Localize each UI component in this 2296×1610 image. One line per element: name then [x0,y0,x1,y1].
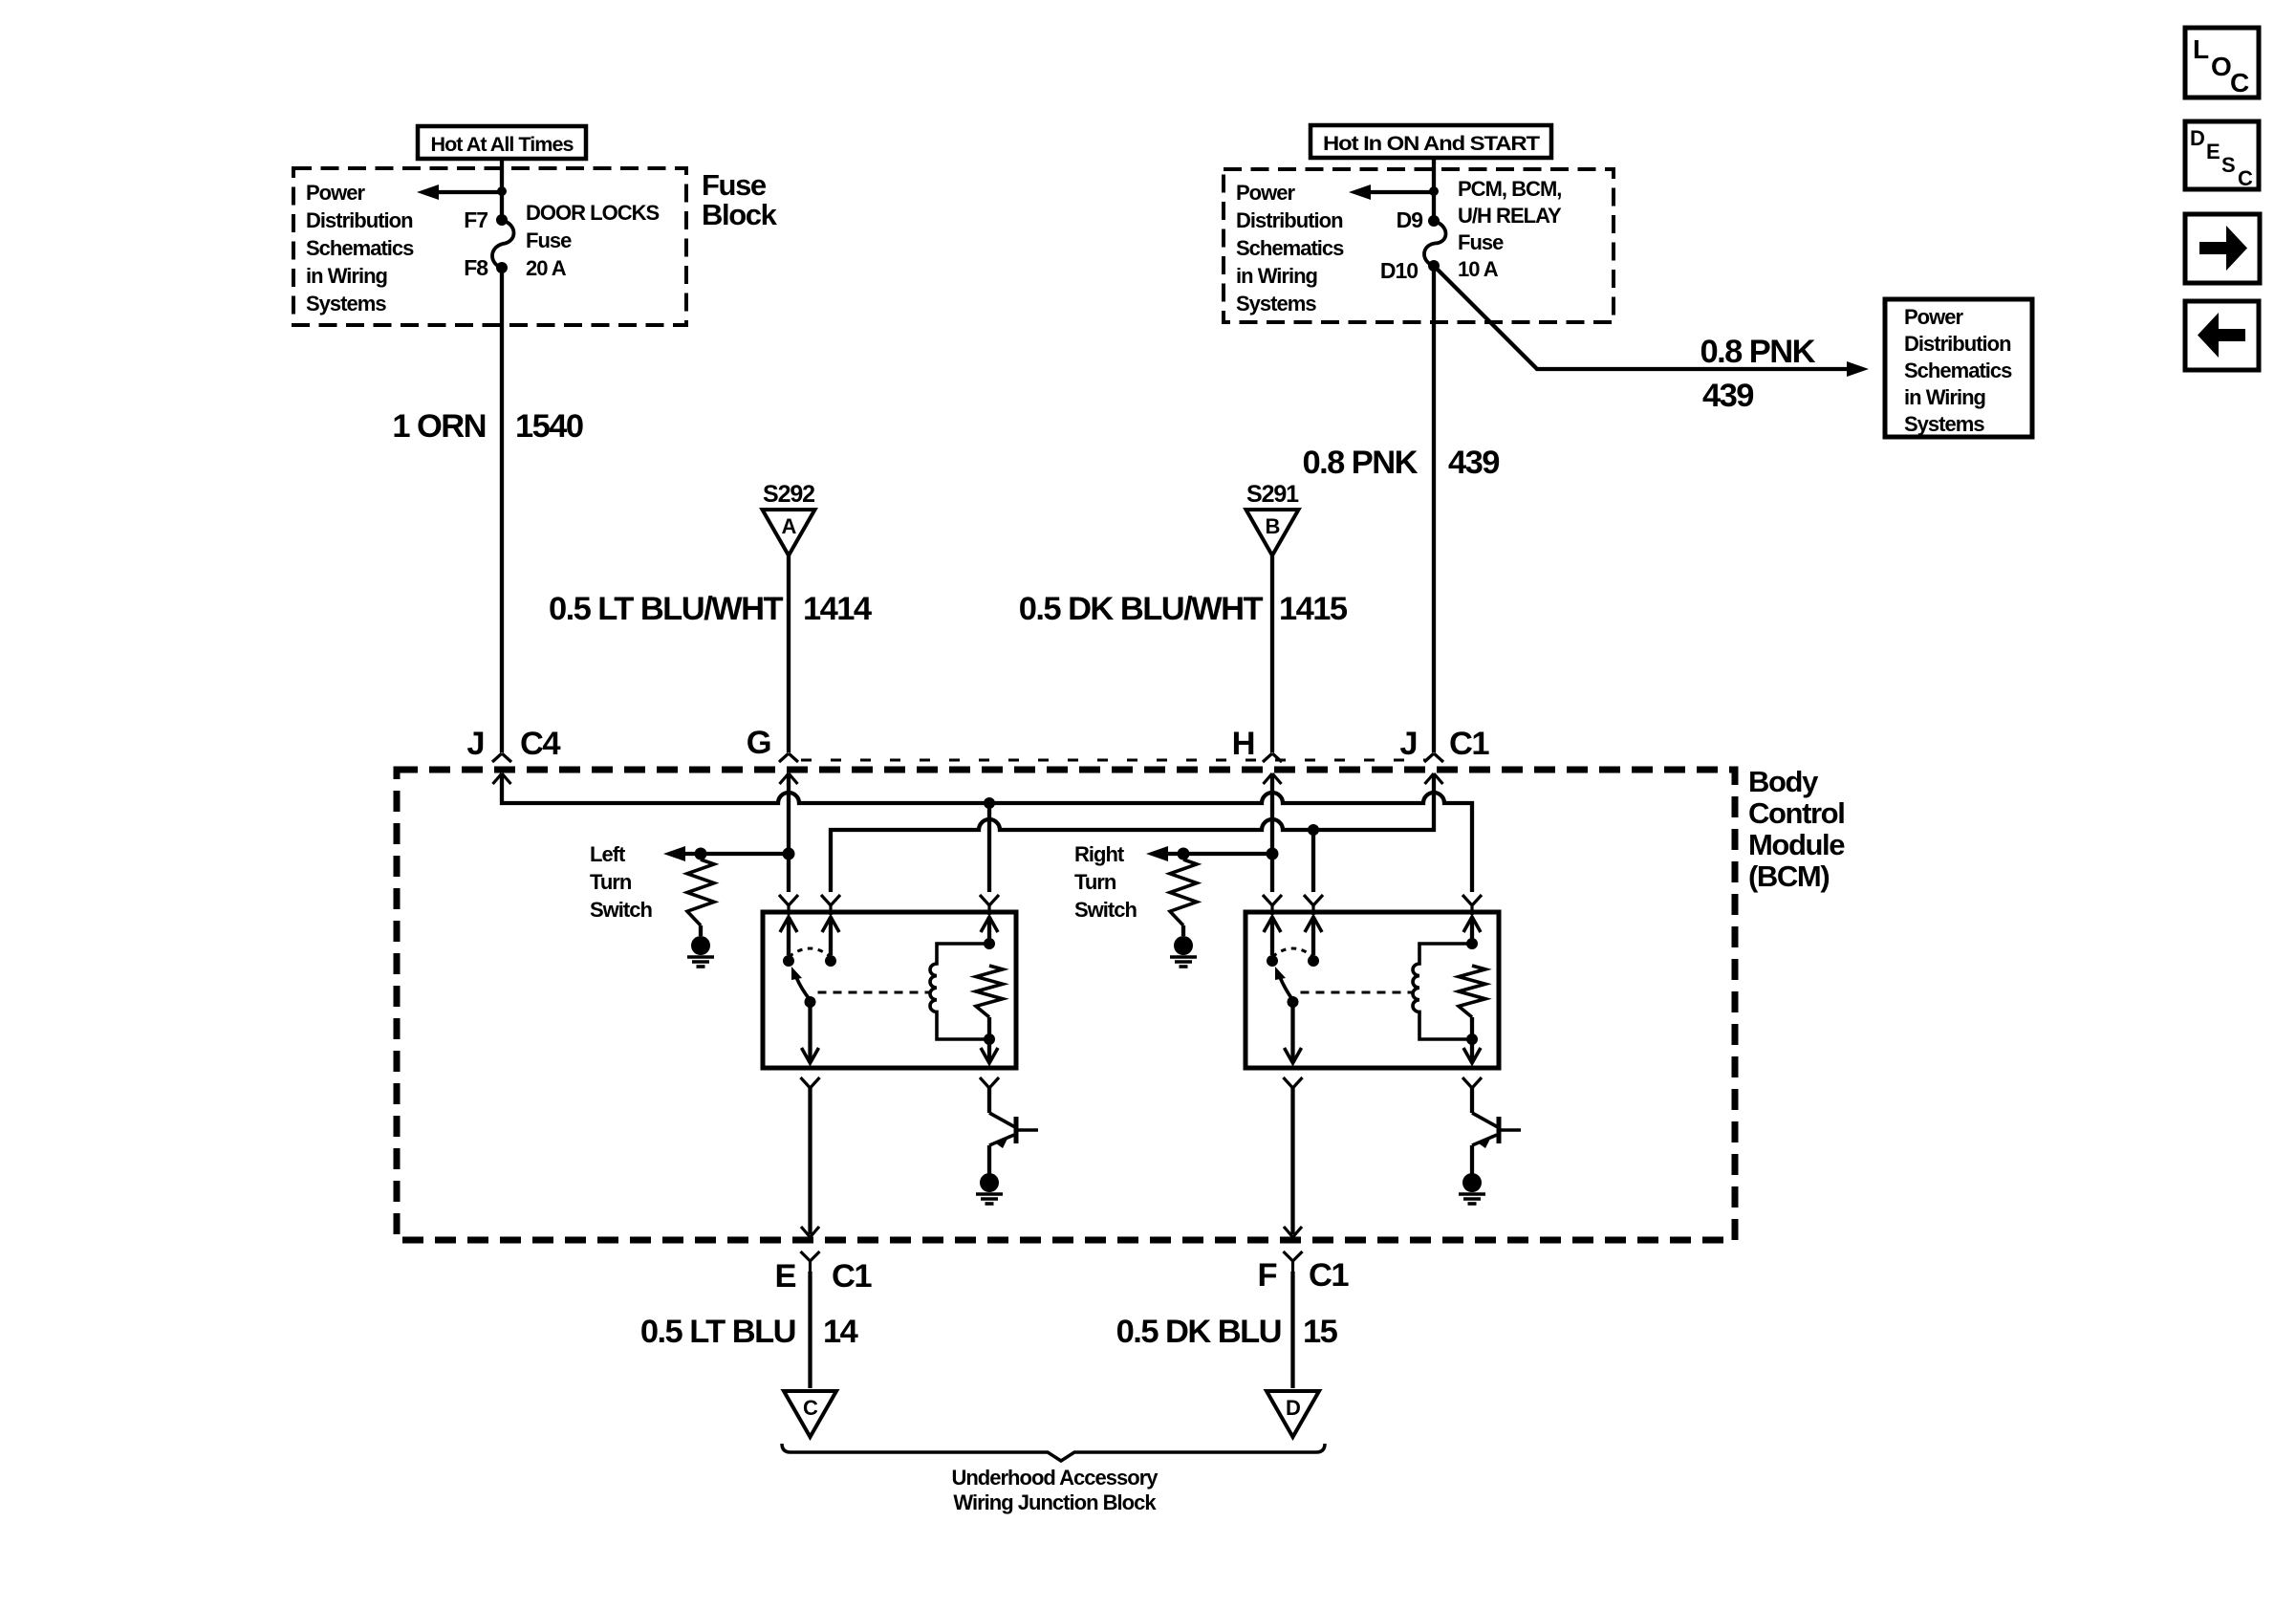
arrowhead into Power Distribution box [1847,361,1869,377]
connector break at BCM pin G [779,753,798,784]
resistor (coil suppression) right (turn signal) relay [1459,966,1485,1017]
svg-text:O: O [2211,52,2231,81]
connector break at BCM pin E C1 [801,1227,820,1272]
svg-text:D9: D9 [1397,207,1423,232]
switch blade right (turn signal) relay [1280,977,1293,1000]
Hot In ON And START label box [1310,125,1551,158]
emitter with arrow transistor right [1472,1135,1497,1145]
wire from Hot At All Times into fuse block [500,159,504,220]
svg-text:0.5 LT BLU/WHT: 0.5 LT BLU/WHT [549,591,784,627]
wire 0.8 PNK 439 from D10 to BCM pin J C1 [1432,266,1436,752]
wire 0.5 LT BLU/WHT 1414 from splice A to BCM pin G [787,555,791,752]
contact throw 2 left (turn signal) relay [825,955,836,967]
arrow coil return out of left (turn signal) relay [981,1048,998,1063]
arrowhead to Power Distribution Schematics (right) [1349,185,1371,200]
svg-text:PCM, BCM,: PCM, BCM, [1458,177,1561,201]
svg-text:Fuse: Fuse [526,228,572,252]
wire line2 junction to right relay [1311,830,1315,892]
svg-text:Power: Power [306,181,366,205]
wire BCM pin H to right relay [1270,773,1274,892]
wiper common left (turn signal) relay [805,996,816,1008]
wire 0.5 LT BLU 14 to junction block [808,1272,812,1388]
base lead transistor left [1016,1128,1038,1132]
coil (inductor) left (turn signal) relay [930,944,989,1039]
svg-text:Block: Block [702,198,778,231]
svg-text:1414: 1414 [803,591,872,627]
svg-text:Module: Module [1748,828,1845,861]
transistor left flasher driver [987,1088,991,1113]
arrow into right (turn signal) relay contact 1 [1264,917,1281,932]
base bar transistor left [1014,1117,1019,1143]
svg-text:Switch: Switch [1074,898,1137,922]
wire 1 ORN 1540 from F8 to BCM pin J C4 [500,268,504,752]
dashed actuation link right (turn signal) relay [1301,991,1413,994]
connector right (turn signal) relay output [1284,1077,1303,1098]
wire left (turn signal) relay contact 2 [829,917,833,955]
base lead transistor right [1499,1128,1521,1132]
emitter wire transistor left [987,1145,991,1174]
wire right (turn signal) relay contact 2 [1311,917,1315,955]
relay right (turn signal) (flasher relay inside BCM) [1245,912,1499,1068]
svg-text:(BCM): (BCM) [1748,859,1829,893]
svg-text:Distribution: Distribution [1236,208,1343,232]
svg-text:C4: C4 [520,726,560,762]
svg-text:Distribution: Distribution [306,208,413,232]
terminal D9 [1428,215,1440,227]
connector right (turn signal) relay coil return [1462,1077,1482,1098]
svg-text:E: E [775,1258,796,1295]
svg-text:Systems: Systems [1236,292,1316,315]
arrowhead to Power Distribution Schematics [417,185,439,200]
dashed throw arc left (turn signal) relay [789,948,831,957]
svg-text:439: 439 [1448,445,1499,481]
fuse block dashed box (left) [293,168,686,325]
branch wire 0.8 PNK 439 to Power Distribution Schematics [1436,268,1856,369]
svg-text:0.8 PNK: 0.8 PNK [1700,334,1815,370]
Hot At All Times label box [418,126,586,159]
arrow into left (turn signal) relay coil circuit [981,917,998,932]
svg-text:F: F [1257,1257,1276,1294]
svg-text:Right: Right [1074,842,1125,866]
svg-text:E: E [2206,140,2220,163]
relay left (turn signal) (flasher relay inside BCM) [763,912,1016,1068]
svg-text:Fuse: Fuse [702,168,767,202]
arrowhead to Left Turn Switch [663,846,685,861]
junction node at fuse block feed [497,186,507,196]
connector break at BCM pin J C4 [492,753,511,784]
arrowhead to Right Turn Switch [1146,846,1168,861]
svg-text:Schematics: Schematics [1236,236,1344,260]
connector left (turn signal) relay switch input 2 [821,895,840,915]
junction node line1 / left relay coil feed [984,797,995,809]
connector C1 thin dashed line [801,759,1425,762]
svg-text:F7: F7 [464,207,487,232]
wiper common right (turn signal) relay [1288,996,1299,1008]
internal feed line 2 from pin J C1 to left relay wiper [831,773,1434,892]
wire from Hot In ON And START into fuse block [1432,158,1436,221]
svg-text:Hot At All Times: Hot At All Times [431,133,574,156]
junction node at right fuse feed [1429,186,1439,196]
right-arrow icon box [2185,214,2260,283]
ground (transistor right) [1462,1173,1482,1192]
svg-text:Schematics: Schematics [306,236,414,260]
terminal F8 [496,262,508,273]
svg-text:G: G [747,725,770,761]
wire wiper to output right (turn signal) relay [1290,1002,1294,1061]
contact throw 2 right (turn signal) relay [1308,955,1319,967]
Body Control Module (BCM) dashed box [397,770,1735,1240]
wire 0.5 DK BLU 15 to junction block [1290,1272,1294,1388]
connector triangle D (junction block) [1267,1391,1319,1437]
arrow out of right (turn signal) relay [1285,1048,1302,1063]
svg-text:C: C [2230,68,2249,98]
svg-text:D: D [1286,1396,1300,1420]
wire right relay output to BCM pin F [1290,1088,1294,1234]
connector left (turn signal) relay coil return [980,1077,999,1098]
ground (Left turn switch resistor) [691,936,710,955]
splice triangle B (S291) [1246,510,1299,555]
svg-text:D: D [2190,126,2204,150]
wire left relay output to BCM pin E [808,1088,812,1234]
svg-text:in Wiring: in Wiring [1236,264,1317,288]
svg-text:0.5 DK BLU/WHT: 0.5 DK BLU/WHT [1019,591,1264,627]
connector break at BCM pin F C1 [1284,1227,1303,1272]
arrow into right (turn signal) relay coil circuit [1463,917,1481,932]
svg-text:F8: F8 [464,255,488,280]
transistor right flasher driver [1470,1088,1474,1113]
svg-text:in Wiring: in Wiring [306,264,387,288]
node coil top left (turn signal) relay [984,938,995,949]
node coil top right (turn signal) relay [1466,938,1478,949]
connector right (turn signal) relay coil input [1462,895,1482,915]
svg-text:D10: D10 [1380,258,1418,283]
arrow out of left (turn signal) relay [802,1048,819,1063]
resistor pull-up Right turn switch [1170,859,1197,925]
arrow into right (turn signal) relay contact 2 [1305,917,1322,932]
ground (transistor left) [980,1173,999,1192]
svg-text:439: 439 [1702,378,1753,414]
svg-text:Underhood Accessory: Underhood Accessory [951,1466,1159,1490]
svg-text:1 ORN: 1 ORN [392,408,486,445]
connector right (turn signal) relay switch input 2 [1304,895,1323,915]
svg-text:A: A [782,514,797,538]
svg-text:14: 14 [823,1314,858,1350]
svg-text:Distribution: Distribution [1904,332,2011,356]
emitter wire transistor right [1470,1145,1474,1174]
internal feed line 1 from pin J C4 to right relay coil [502,773,1472,892]
arrow into left (turn signal) relay contact 2 [822,917,839,932]
splice triangle A (S292) [763,510,815,555]
wire coil feed left (turn signal) relay [987,917,991,940]
wire 0.5 DK BLU/WHT 1415 from splice B to BCM pin H [1270,555,1274,752]
connector triangle C (junction block) [784,1391,836,1437]
svg-text:Left: Left [590,842,626,866]
LOC icon box [2185,28,2259,98]
svg-text:Body: Body [1748,765,1819,798]
svg-text:B: B [1266,514,1280,538]
Left turn switch sense branch [675,852,789,856]
junction node on relay wire (Left) [783,848,795,860]
fuse block dashed box (right) [1224,169,1614,322]
svg-text:Turn: Turn [590,870,632,894]
svg-text:Systems: Systems [306,292,386,315]
svg-text:C1: C1 [1449,726,1489,762]
svg-text:Power: Power [1904,305,1964,329]
emitter with arrow transistor left [989,1135,1014,1145]
svg-text:H: H [1232,726,1254,762]
fuse PCM BCM U/H RELAY 10A element [1424,221,1446,266]
DESC icon box [2185,121,2259,189]
arrow coil return out of right (turn signal) relay [1463,1048,1481,1063]
wire left relay coil feed [987,803,991,892]
node coil bottom right (turn signal) relay [1466,1033,1478,1045]
wire right (turn signal) relay contact 1 [1270,917,1274,955]
svg-text:C: C [2238,166,2253,190]
wire to power distribution (left arrow) [429,190,502,194]
svg-text:S291: S291 [1246,481,1299,508]
connector break at BCM pin H [1263,753,1282,784]
junction node Left turn switch resistor [695,848,707,860]
connector left (turn signal) relay coil input [980,895,999,915]
connector right (turn signal) relay switch input 1 [1263,895,1282,915]
contact throw 1 left (turn signal) relay [783,955,794,967]
svg-text:in Wiring: in Wiring [1904,385,1985,409]
wire coil bottom to driver right (turn signal) relay [1470,1039,1474,1061]
base bar transistor right [1497,1117,1502,1143]
junction node line2 / right relay wiper feed [1308,824,1319,836]
dashed actuation link left (turn signal) relay [818,991,930,994]
terminal F7 [496,214,508,226]
svg-text:1415: 1415 [1279,591,1348,627]
svg-text:0.8 PNK: 0.8 PNK [1302,445,1418,481]
svg-text:DOOR LOCKS: DOOR LOCKS [526,201,660,225]
svg-text:Schematics: Schematics [1904,359,2012,382]
svg-text:20 A: 20 A [526,256,567,280]
switch blade left (turn signal) relay [796,977,811,1000]
svg-text:10 A: 10 A [1458,257,1499,281]
svg-text:0.5 DK BLU: 0.5 DK BLU [1116,1314,1281,1350]
svg-text:15: 15 [1303,1314,1338,1350]
wire BCM pin G to left relay [787,773,791,892]
svg-text:J: J [466,726,484,762]
svg-text:C: C [803,1396,818,1420]
svg-text:Wiring Junction Block: Wiring Junction Block [953,1490,1157,1514]
junction node Right turn switch resistor [1178,848,1190,860]
terminal D10 [1428,260,1440,272]
ground (Right turn switch resistor) [1174,936,1193,955]
wire coil feed right (turn signal) relay [1470,917,1474,940]
svg-text:S: S [2221,153,2235,177]
wire to power distribution (right arrow) [1361,190,1434,194]
svg-text:Switch: Switch [590,898,653,922]
arrow into left (turn signal) relay contact 1 [780,917,797,932]
Power Distribution Schematics box (right) [1885,299,2032,437]
coil (inductor) right (turn signal) relay [1413,944,1472,1039]
connector left (turn signal) relay switch input 1 [779,895,798,915]
node coil bottom left (turn signal) relay [984,1033,995,1045]
resistor (coil suppression) left (turn signal) relay [976,966,1003,1017]
wire wiper to output left (turn signal) relay [808,1002,812,1061]
resistor pull-up Left turn switch [687,859,714,925]
connector left (turn signal) relay output [801,1077,820,1098]
dashed throw arc right (turn signal) relay [1272,948,1313,957]
svg-text:Control: Control [1748,796,1844,830]
left-arrow icon box [2185,301,2259,370]
svg-text:Fuse: Fuse [1458,230,1504,254]
wire left (turn signal) relay contact 1 [787,917,791,955]
contact throw 1 right (turn signal) relay [1267,955,1278,967]
svg-text:Hot In ON And START: Hot In ON And START [1323,132,1540,155]
svg-text:0.5 LT BLU: 0.5 LT BLU [640,1314,795,1350]
brace Underhood Accessory Wiring Junction Block [782,1444,1325,1461]
svg-text:Systems: Systems [1904,412,1984,436]
junction node on relay wire (Right) [1267,848,1279,860]
connector break at BCM pin J C1 [1424,753,1443,784]
svg-text:Power: Power [1236,181,1296,205]
fuse DOOR LOCKS 20A element [492,220,514,268]
svg-text:C1: C1 [832,1258,872,1295]
svg-text:S292: S292 [763,481,814,508]
wire coil bottom to driver left (turn signal) relay [987,1039,991,1061]
svg-text:J: J [1399,726,1417,762]
svg-text:Turn: Turn [1074,870,1116,894]
svg-text:1540: 1540 [515,408,583,445]
svg-text:L: L [2193,34,2209,64]
svg-text:C1: C1 [1309,1257,1349,1294]
svg-text:U/H RELAY: U/H RELAY [1458,204,1562,228]
Right turn switch sense branch [1158,852,1272,856]
